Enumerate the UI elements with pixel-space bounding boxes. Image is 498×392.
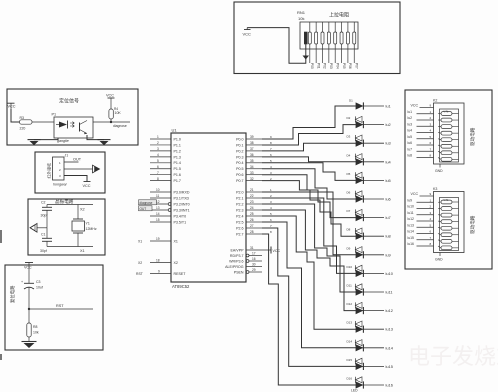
svg-text:K3: K3 [433,187,437,191]
wire P2.5 to lu14 [262,222,356,348]
svg-text:驱动电路: 驱动电路 [469,127,476,146]
LED D14 output lu14 [356,347,384,349]
svg-text:PSEN: PSEN [234,270,244,274]
svg-text:D12: D12 [347,302,353,306]
LED D12 output lu12 [356,310,384,312]
svg-text:C3: C3 [36,280,41,284]
svg-text:X2: X2 [80,208,85,212]
svg-text:P1.6: P1.6 [174,173,181,177]
svg-text:lu6: lu6 [408,141,413,145]
LED D2 output lu2 [356,124,384,126]
wire P0.3 to lu4 [262,157,356,162]
svg-text:D10: D10 [347,265,353,269]
wire J1 pin3 VCC [64,176,87,182]
capacitor C1 [46,228,48,239]
svg-text:D13: D13 [347,321,353,325]
svg-text:VCC: VCC [83,184,91,188]
wire P0.6 to lu7 [262,175,356,218]
svg-text:lu4: lu4 [386,159,392,164]
resistor R3 [20,120,33,124]
svg-text:D16: D16 [347,377,353,381]
svg-text:D3: D3 [347,135,351,139]
mcu X2 pin [150,262,171,264]
svg-text:25: 25 [250,212,254,216]
svg-text:RST: RST [56,304,64,308]
svg-text:P00: P00 [310,63,314,69]
svg-text:19: 19 [156,237,160,241]
mcu P3.0-P3.5 pins [150,191,171,193]
svg-text:lu11: lu11 [386,290,393,295]
svg-text:30pf: 30pf [41,214,48,218]
svg-text:X1: X1 [80,249,85,253]
svg-text:LED: LED [351,389,358,392]
svg-text:D6: D6 [347,191,351,195]
svg-text:28: 28 [250,230,254,234]
svg-text:P0.1: P0.1 [236,143,243,147]
wire RST [29,308,93,310]
svg-text:P03: P03 [329,63,333,69]
connector J1 body [53,157,65,180]
svg-text:P3.0/RXD: P3.0/RXD [174,190,190,194]
resistor network RN1 body [300,22,358,49]
capacitor C2 [46,205,48,208]
svg-text:10K: 10K [115,111,122,115]
svg-text:10uf: 10uf [36,286,43,290]
svg-text:VCC: VCC [411,192,419,196]
svg-text:P3.2/INT0: P3.2/INT0 [174,202,190,206]
svg-text:R8: R8 [33,325,38,329]
svg-text:X2: X2 [138,261,142,265]
mcu U1 body [171,133,246,282]
junction RN1 common [303,56,310,60]
svg-text:18: 18 [156,259,160,263]
svg-text:VCC: VCC [243,32,252,37]
svg-text:lu15: lu15 [386,364,393,369]
svg-text:P2.2: P2.2 [236,202,243,206]
svg-text:13: 13 [156,206,160,210]
LED D15 output lu15 [356,365,384,367]
wire emitter to ground [87,135,104,140]
svg-text:29: 29 [252,268,256,272]
svg-text:P0.4: P0.4 [236,161,243,165]
svg-text:diagnose: diagnose [140,201,153,205]
svg-text:10k: 10k [33,331,39,335]
svg-text:21: 21 [250,188,254,192]
wire R8 to ground [28,337,30,342]
wire R3 to P1 [32,121,54,123]
power symbol VCC (EA) [270,247,272,254]
svg-text:lu2: lu2 [386,122,391,127]
svg-text:P0.3: P0.3 [236,155,243,159]
svg-text:ALE/PROG: ALE/PROG [225,265,244,269]
scan smudge 1 [0,230,2,243]
svg-text:D14: D14 [347,339,353,343]
svg-text:lu3: lu3 [408,122,413,126]
LED D4 output lu4 [356,161,384,163]
wire P0.5 to lu6 [262,169,356,199]
crystal block frame [28,199,105,255]
ground arrow (crystal) [30,224,37,233]
svg-text:EA/VPP: EA/VPP [231,248,245,252]
mcu P1.0-P1.7 pins [150,138,171,140]
svg-text:X1: X1 [138,239,142,243]
wire P2.0 to lu9 [262,192,356,255]
svg-text:VCC: VCC [273,249,281,253]
wire J1 pin2 [64,168,93,170]
svg-text:36: 36 [250,153,254,157]
svg-text:lu6: lu6 [386,197,391,202]
power symbol VCC (reset) [25,262,33,264]
LED D1 output lu1 [356,105,384,107]
capacitor C3 [28,269,30,283]
svg-text:lu1: lu1 [408,110,413,114]
svg-text:P3.3/INT1: P3.3/INT1 [174,208,190,212]
svg-text:17: 17 [252,252,256,256]
mcu P0.0-P0.7 pins [246,138,262,140]
wire to R8 [28,309,30,323]
svg-text:lu7: lu7 [386,215,391,220]
svg-text:P04: P04 [335,63,339,69]
svg-text:31: 31 [250,246,254,250]
svg-text:lu10: lu10 [408,205,415,209]
crystal Y1 [77,205,79,220]
svg-text:37: 37 [250,147,254,151]
svg-text:P2.7: P2.7 [236,232,243,236]
svg-text:diagnose: diagnose [113,124,127,128]
LED D13 output lu13 [356,328,384,330]
opto LED [59,122,67,128]
wire LED cathode to ground [34,138,58,140]
opto phototransistor [79,123,81,132]
svg-text:lu9: lu9 [408,198,413,202]
svg-text:+: + [21,280,23,284]
svg-text:D9: D9 [347,246,351,250]
svg-text:P3.5/T1: P3.5/T1 [174,220,187,224]
ir receiver block frame [35,152,105,193]
svg-text:红外接收: 红外接收 [47,163,52,179]
svg-text:32: 32 [250,177,254,181]
svg-text:lu12: lu12 [386,308,393,313]
wire X1 bottom [47,246,93,248]
svg-text:P3.4/T0: P3.4/T0 [174,214,187,218]
svg-text:驱动电路: 驱动电路 [469,215,476,234]
svg-text:6: 6 [157,165,159,169]
mcu X1 pin [150,240,171,242]
svg-text:11: 11 [156,194,160,198]
svg-text:12MHz: 12MHz [86,227,97,231]
svg-text:P1.4: P1.4 [174,161,181,165]
svg-text:lu8: lu8 [386,234,391,239]
svg-text:RESET: RESET [174,272,187,276]
svg-text:P1: P1 [52,113,57,117]
svg-text:lu5: lu5 [408,135,413,139]
svg-text:P2.6: P2.6 [236,226,243,230]
svg-text:复位电路: 复位电路 [9,285,16,303]
svg-text:VCC: VCC [24,266,32,270]
svg-text:K2: K2 [433,99,437,103]
svg-text:GND: GND [435,169,443,173]
svg-text:上拉电阻: 上拉电阻 [329,12,349,19]
svg-text:RD/P3.7: RD/P3.7 [230,254,244,258]
svg-text:3: 3 [157,147,159,151]
svg-text:D5: D5 [347,172,351,176]
svg-text:GND: GND [435,258,443,262]
wire X2 top [47,204,93,206]
svg-text:P1.2: P1.2 [174,149,181,153]
svg-text:P0.2: P0.2 [236,149,243,153]
svg-text:39: 39 [250,135,254,139]
svg-text:P3.1/TXD: P3.1/TXD [174,196,190,200]
ground (opto right) [98,139,111,141]
svg-text:R3: R3 [20,116,25,120]
net label OUT (mcu) [139,206,153,211]
wire P2.3 to lu12 [262,210,356,311]
opto coupling arrows [70,122,74,128]
wire P2.2 to lu11 [262,204,356,292]
LED D10 output lu10 [356,272,384,274]
svg-text:34: 34 [250,165,254,169]
svg-text:10k: 10k [298,16,304,21]
svg-text:gangtie: gangtie [57,139,69,143]
svg-text:D15: D15 [347,358,353,362]
svg-text:14: 14 [156,212,160,216]
LED D6 output lu6 [356,198,384,200]
wire VCC to R3 [11,109,20,122]
svg-text:P0.5: P0.5 [236,167,243,171]
svg-text:lu16: lu16 [386,383,393,388]
svg-text:2: 2 [157,141,159,145]
svg-text:9: 9 [158,270,160,274]
wire P0.0 to lu1 [262,106,356,139]
LED D16 output lu16 [356,384,384,386]
svg-text:lu13: lu13 [386,327,393,332]
svg-text:P2.0: P2.0 [236,190,243,194]
wire VCC to RN1 common [247,28,306,64]
svg-text:D8: D8 [347,228,351,232]
svg-text:Y1: Y1 [86,222,90,226]
svg-text:30pf: 30pf [40,249,47,253]
svg-text:24: 24 [250,206,254,210]
svg-text:lu11: lu11 [408,211,414,215]
LED D9 output lu9 [356,254,384,256]
svg-text:15: 15 [156,218,160,222]
svg-text:VCC: VCC [411,104,419,108]
LED D3 output lu3 [356,142,384,144]
power symbol VCC (J1) [84,181,91,183]
svg-text:lu1: lu1 [386,104,391,109]
svg-text:U1: U1 [172,128,178,133]
svg-text:P1.0: P1.0 [174,137,181,141]
svg-text:hongwai: hongwai [53,183,67,187]
svg-text:lu2: lu2 [408,116,413,120]
svg-text:C1: C1 [41,233,46,237]
mcu RESET pin [150,273,171,275]
svg-text:P0.7: P0.7 [236,179,243,183]
svg-text:lu9: lu9 [386,252,391,257]
svg-text:P02: P02 [323,63,327,69]
optocoupler P1 body [54,117,93,138]
svg-text:lu16: lu16 [408,242,415,246]
mcu PSEN pin [246,271,249,274]
svg-text:P1.1: P1.1 [174,143,181,147]
optocoupler block frame [7,89,138,145]
svg-text:C2: C2 [41,201,46,205]
svg-text:26: 26 [250,218,254,222]
svg-text:4: 4 [157,153,159,157]
junction RST [28,308,30,310]
wire P2.7 to lu16 [262,234,356,385]
ground (reset) [22,341,37,343]
power symbol VCC (top box) [244,29,251,31]
svg-text:lu14: lu14 [408,230,415,234]
RN1 resistor elements with leads [309,22,311,32]
svg-text:P1.5: P1.5 [174,167,181,171]
svg-text:16: 16 [252,257,256,261]
wire J1 pin1 OUT [64,161,79,163]
svg-text:lu7: lu7 [408,147,413,151]
arrow port [93,165,100,173]
svg-text:WR/P3.6: WR/P3.6 [229,259,243,263]
svg-text:P1.3: P1.3 [174,155,181,159]
svg-text:lu4: lu4 [408,129,413,133]
svg-text:8: 8 [157,177,159,181]
resistor R4 [109,109,113,119]
svg-text:33: 33 [250,171,254,175]
svg-text:P07: P07 [354,63,358,69]
svg-text:定位信号: 定位信号 [59,98,79,105]
ground (opto left) [28,139,41,141]
svg-text:P0.0: P0.0 [236,137,243,141]
svg-text:7: 7 [157,171,159,175]
svg-text:lu5: lu5 [386,178,391,183]
svg-text:22: 22 [250,194,254,198]
LED D11 output lu11 [356,291,384,293]
svg-text:D2: D2 [347,116,351,120]
svg-text:P2.5: P2.5 [236,220,243,224]
svg-text:J1: J1 [65,154,69,158]
wire P2.6 to lu15 [262,228,356,366]
svg-text:P2.1: P2.1 [236,196,243,200]
svg-text:VCC: VCC [106,94,114,98]
svg-text:RN1: RN1 [297,10,306,15]
svg-text:220: 220 [20,127,26,131]
wire collector junction [110,119,112,122]
svg-text:OUT: OUT [73,158,82,162]
mcu ALE/PROG pin [246,266,262,268]
svg-text:lu12: lu12 [408,217,415,221]
wire P2.1 to lu10 [262,198,356,273]
svg-text:晶振电路: 晶振电路 [55,198,74,205]
LED D7 output lu7 [356,217,384,219]
wire P0.4 to lu5 [262,163,356,181]
RN1 pin-1 mark [304,32,307,44]
svg-text:D4: D4 [347,153,351,157]
svg-text:D7: D7 [347,209,351,213]
svg-text:lu15: lu15 [408,236,415,240]
svg-text:P0.6: P0.6 [236,173,243,177]
LED D8 output lu8 [356,235,384,237]
svg-text:lu3: lu3 [386,141,391,146]
wire P0.1 to lu2 [262,125,356,145]
pull-up network block frame [234,2,400,74]
svg-text:10: 10 [156,188,160,192]
svg-text:lu10: lu10 [386,271,394,276]
svg-text:P01: P01 [316,63,320,69]
mcu EA/VPP pin [246,249,271,251]
driver block frame [405,90,492,269]
svg-text:R4: R4 [114,107,118,111]
svg-text:lu14: lu14 [386,345,394,350]
svg-text:23: 23 [250,200,254,204]
svg-text:P1.7: P1.7 [174,179,181,183]
wire P0.2 to lu3 [262,143,356,151]
svg-text:X1: X1 [174,239,178,243]
svg-text:P2.4: P2.4 [236,214,243,218]
mcu P2.0-P2.7 pins [246,191,262,193]
svg-text:5: 5 [157,159,159,163]
svg-text:P05: P05 [342,63,346,69]
svg-text:RST: RST [136,272,143,276]
resistor R8 [27,323,31,337]
svg-text:27: 27 [250,224,254,228]
wire to ground arrow [37,227,47,229]
wire P0.7 to lu8 [262,181,356,237]
scan smudge 2 [0,354,2,360]
svg-text:D1: D1 [349,99,353,103]
svg-text:X2: X2 [174,261,178,265]
svg-text:P06: P06 [348,63,352,69]
LED D5 output lu5 [356,179,384,181]
svg-text:1: 1 [157,135,159,139]
svg-text:P2.3: P2.3 [236,208,243,212]
svg-text:lu13: lu13 [408,223,415,227]
svg-text:38: 38 [250,141,254,145]
svg-text:电子发烧友: 电子发烧友 [408,344,498,369]
svg-text:D11: D11 [347,284,353,288]
svg-text:30: 30 [252,263,256,267]
net label diagnose (mcu) [139,200,157,205]
svg-text:35: 35 [250,159,254,163]
svg-text:AT89C52: AT89C52 [172,284,190,289]
mcu WR pin [246,260,249,263]
wire P2.4 to lu13 [262,216,356,329]
svg-text:lu8: lu8 [408,154,413,158]
mcu RD pin [246,254,249,257]
svg-text:OUT: OUT [140,207,147,211]
svg-text:VCC: VCC [8,105,16,109]
reset block frame [5,265,103,350]
